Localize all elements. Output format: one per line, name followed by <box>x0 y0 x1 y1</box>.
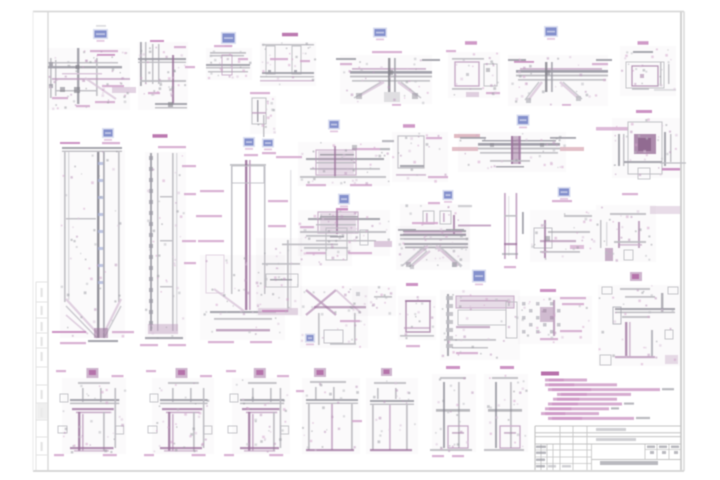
detail node C1 beam splice 2 <box>338 194 350 205</box>
detail node D2 small joint <box>306 235 338 237</box>
detail node B7 dense section <box>596 127 628 131</box>
detail node A2 <box>140 42 142 86</box>
detail node D9 portal base large <box>620 288 650 290</box>
section label 2-2 (magenta) column 2 <box>153 134 168 138</box>
section label (magenta) B7 <box>636 110 652 113</box>
node label 5 (blue) row1 <box>96 25 106 27</box>
detail node D8 bolted grid <box>540 289 556 292</box>
column elevation B1 <box>62 147 122 149</box>
node label 11 (blue) row3 <box>558 187 571 197</box>
node label (blue) D3 <box>305 334 315 343</box>
base detail E5 tall frame 2 <box>381 368 392 376</box>
sheet outer edge <box>33 11 684 13</box>
base detail E3 <box>254 368 266 378</box>
base detail E4 tall frame <box>314 368 326 377</box>
detail node A4 twin posts <box>266 46 275 74</box>
detail node A6 X-truss joint <box>350 71 432 74</box>
detail node B5 column section <box>398 136 424 168</box>
node label 12 (blue) row1 truss <box>373 28 387 38</box>
detail node A3 <box>210 52 246 54</box>
node label 6 (blue, large) row1 <box>221 32 236 44</box>
base detail E6 narrow <box>446 366 460 369</box>
section label 1-1 (magenta) <box>282 33 298 37</box>
base detail E7 narrow 2 <box>500 366 514 369</box>
node label 8 (blue) column 1 <box>102 128 114 138</box>
detail node D1 vertical splice w/ plate <box>287 240 289 312</box>
base detail E1 <box>86 368 98 378</box>
base detail E2 <box>176 368 188 378</box>
detail node A5 small section below <box>250 92 270 94</box>
title block left columns <box>540 444 542 470</box>
notes text lines (magenta) <box>545 379 587 382</box>
detail node C5 corner frame <box>622 193 638 195</box>
detail node D3 X-braced base <box>306 290 336 315</box>
section label small (magenta) D6 <box>406 283 418 286</box>
detail node A7 square section <box>455 62 479 86</box>
node label 14 (blue) bright <box>472 270 486 283</box>
detail node D7 base w/ checker column <box>447 294 449 356</box>
title block stage-sheet cells <box>644 444 646 460</box>
column B3 base connection <box>210 311 276 313</box>
section label (magenta) A7 <box>465 41 477 45</box>
detail node B6 wide beam splice <box>478 143 560 146</box>
section label (magenta) D9 <box>630 272 642 281</box>
detail node D6 square base section <box>406 301 430 332</box>
detail node A8 X-truss joint wide <box>516 70 608 73</box>
detail node A1 beam-column joint <box>50 58 52 98</box>
detail node D4 arch truss joint <box>400 234 466 236</box>
section label (magenta) A9 <box>638 41 649 45</box>
title block small texts <box>536 446 546 449</box>
left fragment marks D5 <box>360 230 368 245</box>
node label 10 (blue) wide splice <box>517 115 530 126</box>
title block table <box>535 425 681 427</box>
column elevation B3 <box>244 154 258 156</box>
notes heading (magenta) <box>541 372 559 376</box>
detail node C3 column strip elevation <box>504 193 506 259</box>
node label 13 (blue) row1 truss 2 <box>544 26 558 37</box>
detail node B4 splice <box>328 120 340 130</box>
detail node A9 corner section <box>633 51 653 53</box>
detail node C4 stepped connection <box>564 215 592 217</box>
section label (magenta) B5 <box>403 124 415 128</box>
column elevation B2 <box>150 153 152 331</box>
left margin stamp column <box>35 282 37 470</box>
detail node C2 column head <box>443 190 454 200</box>
title block doc number cell <box>592 459 682 461</box>
node label 9 (blue) column 3 <box>243 137 255 147</box>
drawing frame inner border <box>47 12 49 470</box>
